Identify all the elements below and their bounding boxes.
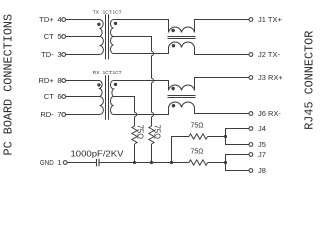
wire TD- to T1 primary bottom xyxy=(66,54,100,56)
wire L2 bottom to J6 xyxy=(195,108,249,114)
svg-text:J3 RX+: J3 RX+ xyxy=(258,73,283,82)
choke L1 bottom winding xyxy=(169,42,195,48)
transformer T1 secondary phase dot xyxy=(114,22,117,25)
wire ground rail C1 to R4 xyxy=(99,162,189,164)
pin 7 RD- xyxy=(40,110,65,119)
transformer T2 secondary phase dot xyxy=(114,83,117,86)
resistor R2 75 ohm (TX center tap termination) xyxy=(149,126,154,144)
wire RD+ to T2 primary top xyxy=(66,80,100,82)
pin J1 TX+ xyxy=(249,15,282,24)
wire junction to J5 xyxy=(226,137,249,145)
wire L1 bottom to J2 xyxy=(195,48,249,55)
choke L1 bottom phase dot xyxy=(172,44,175,47)
junction R2-rail xyxy=(150,161,153,164)
wire L2 top to J3 xyxy=(195,78,249,91)
wire hop R2 over T2 secondary top xyxy=(152,78,154,82)
choke L1 core xyxy=(168,36,196,38)
svg-text:5: 5 xyxy=(57,32,61,41)
svg-text:PC BOARD CONNECTIONS: PC BOARD CONNECTIONS xyxy=(2,14,16,156)
wire R2 down to resistor xyxy=(151,117,153,126)
wire rail up to R3 xyxy=(172,137,190,163)
wire T1 secondary bottom to L1 xyxy=(114,48,169,54)
wire junction to J8 xyxy=(226,163,249,171)
junction J4/J5 xyxy=(224,135,227,138)
wire hop R2 over T1 secondary bottom xyxy=(152,51,154,55)
transformer T1 primary phase dot xyxy=(97,23,100,26)
wire CT to T2 primary center tap xyxy=(66,96,100,98)
wire T2 secondary bottom to L2 xyxy=(114,108,169,115)
pin 4 TD+ xyxy=(39,15,65,24)
svg-text:J7: J7 xyxy=(258,150,266,159)
transformer T2 primary phase dot xyxy=(97,83,100,86)
pin J2 TX- xyxy=(249,50,280,59)
pin 8 RD+ xyxy=(38,76,65,85)
wire R3 to J4/J5 junction xyxy=(208,136,226,138)
pin 3 TD- xyxy=(41,50,65,59)
wire junction to J4 xyxy=(226,129,249,137)
svg-text:J5: J5 xyxy=(258,140,266,149)
svg-text:75Ω: 75Ω xyxy=(136,125,145,140)
svg-text:RJ45 CONNECTOR: RJ45 CONNECTOR xyxy=(302,31,316,130)
pin 6 CT xyxy=(44,92,66,101)
choke L2 top winding xyxy=(169,85,195,91)
svg-text:75Ω: 75Ω xyxy=(191,122,204,129)
svg-text:7: 7 xyxy=(57,110,61,119)
choke L2 core xyxy=(168,95,196,97)
resistor R1 75 ohm (RX center tap termination) xyxy=(132,126,137,144)
svg-text:J6 RX-: J6 RX- xyxy=(258,109,281,118)
wire R2 down continued xyxy=(151,56,153,79)
transformer T1 secondary winding xyxy=(111,20,114,54)
junction J7/J8 xyxy=(224,161,227,164)
wire T1 secondary top to L1 xyxy=(114,20,169,33)
resistor R3 75 ohm (J4/J5 termination) xyxy=(189,134,208,139)
pin 5 CT xyxy=(44,32,66,41)
pin 1 GND xyxy=(40,158,67,167)
choke L1 top winding xyxy=(169,27,195,33)
wire R1 down to resistor xyxy=(134,117,136,126)
svg-text:TD+: TD+ xyxy=(39,15,54,24)
svg-text:3: 3 xyxy=(57,50,61,59)
svg-text:75Ω: 75Ω xyxy=(191,148,204,155)
svg-text:J2 TX-: J2 TX- xyxy=(258,50,280,59)
wire hop R2 over T2 secondary bottom xyxy=(152,112,154,116)
svg-text:RX: RX xyxy=(93,70,100,76)
junction rail to R3 drop xyxy=(170,161,173,164)
wire CT to T1 primary center tap xyxy=(66,36,100,38)
wire R2 to ground rail xyxy=(151,144,153,163)
svg-text:1: 1 xyxy=(57,158,61,167)
junction R1-rail xyxy=(133,161,136,164)
wire junction to J7 xyxy=(226,155,249,163)
svg-text:75Ω: 75Ω xyxy=(153,125,162,140)
pin J6 RX- xyxy=(249,109,281,118)
wire RD- to T2 primary bottom xyxy=(66,114,100,116)
svg-text:8: 8 xyxy=(57,76,61,85)
pin J3 RX+ xyxy=(249,73,283,82)
wire T1 secondary center tap down to R2 xyxy=(114,37,152,52)
wire R4 to J7/J8 junction xyxy=(208,162,226,164)
wire T2 secondary center tap down to R1 xyxy=(114,97,135,113)
svg-text:J1 TX+: J1 TX+ xyxy=(258,15,282,24)
svg-text:GND: GND xyxy=(40,158,54,167)
pin J4 xyxy=(249,124,266,133)
pin J7 xyxy=(249,150,266,159)
choke L1 top phase dot xyxy=(171,29,174,32)
wire T2 secondary top to L2 xyxy=(114,81,169,91)
svg-text:1000pF/2KV: 1000pF/2KV xyxy=(71,149,125,158)
transformer T1 label: TX 1CT:1CT xyxy=(93,10,122,16)
svg-text:RD+: RD+ xyxy=(38,76,54,85)
wire GND to C1 xyxy=(67,162,96,164)
svg-text:J8: J8 xyxy=(258,166,266,175)
wire TD+ to T1 primary top xyxy=(66,19,100,21)
capacitor C1 1000pF/2KV xyxy=(97,159,100,166)
transformer T2 core xyxy=(105,75,107,120)
svg-text:4: 4 xyxy=(57,15,61,24)
transformer T2 primary winding xyxy=(100,81,104,115)
svg-text:CT: CT xyxy=(44,92,54,101)
svg-text:6: 6 xyxy=(57,92,61,101)
svg-text:TX: TX xyxy=(93,10,100,16)
choke L2 bottom phase dot xyxy=(172,104,175,107)
transformer T1 primary winding xyxy=(100,20,104,55)
svg-text:CT: CT xyxy=(44,32,54,41)
wire R2 down continued xyxy=(151,83,153,113)
resistor R4 75 ohm (J7/J8 termination) xyxy=(189,160,208,165)
pin J8 xyxy=(249,166,266,175)
wire hop R1 over T2 secondary bottom xyxy=(135,112,137,116)
wire R1 to ground rail xyxy=(134,144,136,163)
choke L2 bottom winding xyxy=(169,102,195,108)
wire L1 top to J1 xyxy=(195,20,249,33)
svg-text:J4: J4 xyxy=(258,124,266,133)
svg-text:TD-: TD- xyxy=(41,50,54,59)
transformer T1 core xyxy=(105,14,107,59)
pin J5 xyxy=(249,140,266,149)
transformer T2 secondary winding xyxy=(111,81,114,115)
svg-text:RD-: RD- xyxy=(40,110,54,119)
transformer T2 label: RX 1CT:1CT xyxy=(93,70,122,76)
choke L2 top phase dot xyxy=(171,87,174,90)
